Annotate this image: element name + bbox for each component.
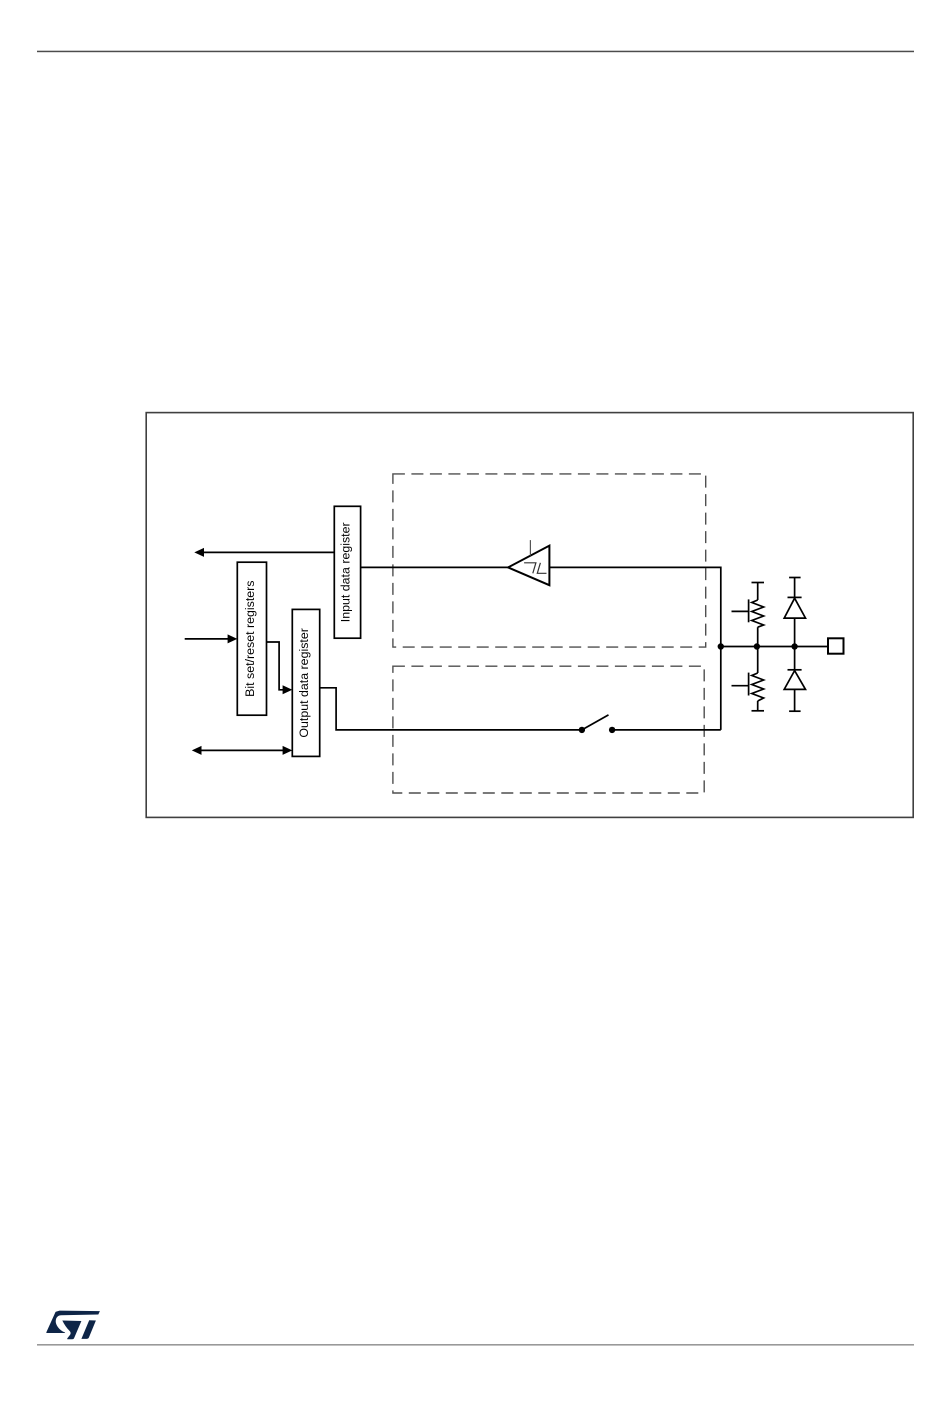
wire bit set/reset to output register: [267, 642, 293, 694]
footer rule: [37, 1344, 914, 1346]
vdd tick pull-up: [752, 582, 765, 584]
ST logo: [46, 1311, 100, 1340]
figure frame: [146, 413, 913, 818]
vss tick diode: [789, 710, 801, 712]
vdd tick diode: [789, 577, 801, 579]
wire read/write bus: [192, 746, 292, 755]
node resistor junction: [754, 643, 760, 649]
block Output data register: [292, 609, 319, 756]
wire write bus: [185, 634, 238, 643]
wire output register to switch: [320, 688, 582, 730]
svg-text:Output data register: Output data register: [297, 628, 311, 738]
resistor pull-down: [732, 647, 764, 711]
svg-text:Input data register: Input data register: [338, 522, 352, 622]
vss tick pull-down: [752, 710, 765, 712]
wire pin line: [721, 646, 828, 648]
diode to vdd: [784, 578, 805, 647]
block Bit set/reset registers: [237, 562, 266, 715]
switch: [579, 715, 616, 733]
svg-text:Bit set/reset registers: Bit set/reset registers: [243, 581, 257, 697]
dashed box output driver: [393, 666, 704, 793]
resistor pull-up: [732, 583, 764, 647]
wire input register to schmitt trigger: [361, 566, 509, 568]
wire read bus: [194, 548, 334, 557]
schmitt trigger: [508, 540, 549, 585]
diode to vss: [784, 647, 805, 712]
node diode junction: [791, 643, 797, 649]
dashed box input driver: [393, 474, 706, 647]
header rule: [37, 51, 914, 53]
node bus/pin junction: [718, 643, 724, 649]
wire switch to bus: [612, 729, 721, 731]
block Input data register: [334, 506, 360, 638]
wire schmitt output to bus: [549, 567, 720, 730]
I/O pin pad: [828, 638, 844, 653]
